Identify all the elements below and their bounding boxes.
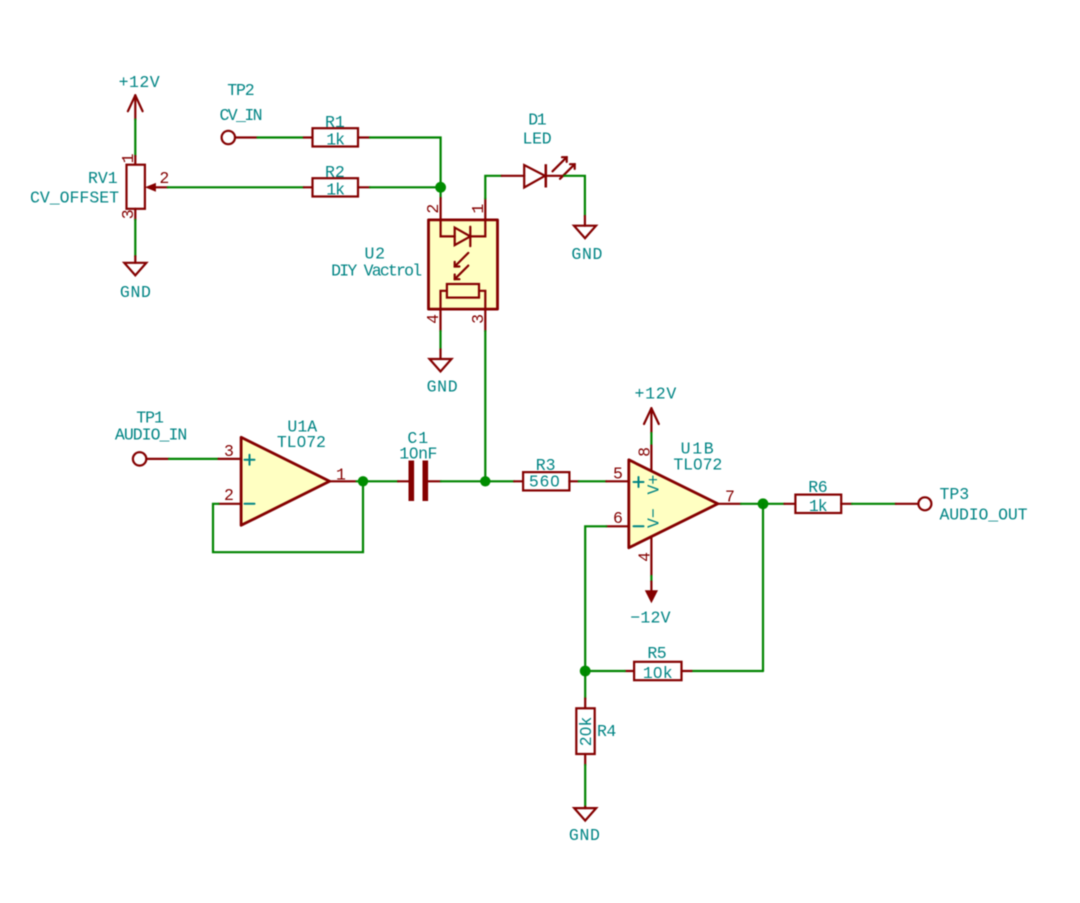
svg-text:AUDIO_OUT: AUDIO_OUT (940, 506, 1028, 525)
svg-text:CV_IN: CV_IN (220, 106, 263, 125)
wire R4 to GND (584, 765, 586, 807)
ground (U2) (427, 349, 458, 396)
svg-text:−12V: −12V (630, 609, 670, 628)
diode D1 LED (502, 111, 575, 188)
wire U1A feedback loop (213, 481, 363, 552)
wire R6 to TP3 (852, 503, 896, 505)
svg-text:+12V: +12V (119, 73, 160, 92)
svg-text:3: 3 (469, 314, 488, 324)
test point TP3 AUDIO_OUT (896, 485, 1028, 525)
svg-text:6: 6 (613, 509, 623, 528)
svg-text:1k: 1k (809, 497, 828, 516)
junction node at U1B output (758, 498, 769, 509)
svg-text:7: 7 (725, 488, 735, 507)
svg-text:GND: GND (120, 283, 151, 302)
svg-text:3: 3 (119, 209, 138, 219)
wire R5 right (692, 670, 764, 672)
wire R5 left to junction (585, 670, 625, 672)
svg-text:3: 3 (224, 442, 234, 461)
wire D1 to GND (564, 176, 585, 216)
svg-text:1: 1 (336, 466, 346, 485)
svg-text:V+: V+ (645, 475, 664, 495)
svg-text:V−: V− (645, 508, 664, 528)
resistor R1 1k (304, 113, 370, 150)
resistor R3 560 (514, 456, 579, 492)
ground (D1) (571, 216, 602, 264)
ground (R4) (569, 807, 600, 845)
svg-text:2: 2 (224, 486, 234, 505)
resistor R2 1k (304, 163, 370, 200)
svg-text:+12V: +12V (635, 385, 677, 404)
power -12V (630, 582, 670, 628)
wire R1 to node (370, 138, 441, 199)
svg-text:TP2: TP2 (227, 81, 255, 100)
junction node at U1A output (358, 476, 368, 486)
svg-text:1: 1 (119, 153, 138, 163)
wire TP1 to U1A pin3 (169, 458, 219, 460)
svg-text:GND: GND (427, 378, 458, 397)
power +12V (U1B) (635, 385, 677, 433)
svg-text:TP3: TP3 (940, 485, 970, 504)
test point TP1 AUDIO_IN (115, 409, 187, 466)
svg-text:R4: R4 (597, 722, 616, 741)
potentiometer RV1 (30, 153, 169, 219)
svg-text:4: 4 (635, 552, 654, 562)
wire U1B output down to R5 (762, 504, 764, 671)
svg-text:2: 2 (424, 204, 443, 214)
svg-text:R5: R5 (647, 644, 666, 663)
svg-text:D1: D1 (528, 111, 546, 130)
svg-text:R2: R2 (325, 163, 345, 182)
op-amp U1B TL072 (606, 440, 741, 577)
svg-text:10nF: 10nF (399, 445, 437, 464)
ground (RV1) (120, 256, 151, 302)
power +12V (left) (119, 73, 160, 120)
svg-text:5: 5 (613, 465, 623, 484)
svg-text:AUDIO_IN: AUDIO_IN (115, 426, 187, 445)
wire R2 to node (370, 186, 441, 188)
svg-text:R1: R1 (325, 113, 345, 132)
wire U1B pin4 to -12V (650, 576, 652, 582)
svg-text:R6: R6 (808, 478, 827, 497)
wire R3 to U1B pin5 (579, 480, 607, 482)
wire RV1 pin3 to GND (134, 220, 136, 256)
junction node at R1/R2/U2 (435, 182, 446, 193)
wire U2 pin3 down to C1/R3 node (484, 331, 486, 481)
wire junction up to U1B pin6 (585, 526, 606, 671)
wire junction down to R4 (584, 671, 586, 699)
svg-text:GND: GND (569, 826, 600, 845)
resistor R6 1k (784, 478, 852, 516)
svg-text:8: 8 (635, 447, 654, 457)
svg-text:DIY Vactrol: DIY Vactrol (331, 262, 422, 281)
svg-text:CV_OFFSET: CV_OFFSET (30, 189, 119, 208)
svg-text:4: 4 (424, 314, 443, 324)
svg-text:1: 1 (469, 204, 488, 214)
wire RV1 wiper to R2 (168, 186, 304, 188)
test point TP2 CV_IN (220, 81, 263, 144)
resistor R5 10k (625, 644, 692, 683)
wire C1 to R3 (441, 480, 514, 482)
op-amp U1A TL072 (219, 418, 357, 526)
capacitor C1 10nF (398, 429, 441, 501)
svg-text:2: 2 (159, 169, 169, 188)
wire U1B output to R6 (741, 503, 784, 505)
resistor R4 20k (576, 699, 616, 766)
wire U2 pin4 to GND (439, 331, 441, 349)
junction node at U2 pin3 / C1 / R3 (480, 476, 490, 486)
wire TP2 to R1 (258, 136, 304, 138)
wire U2 pin1 to D1 (485, 176, 501, 199)
svg-text:RV1: RV1 (88, 169, 118, 188)
optocoupler U2 DIY Vactrol (331, 198, 497, 331)
wire +12V to RV1 pin1 (134, 120, 136, 157)
svg-text:1k: 1k (326, 131, 345, 150)
svg-text:GND: GND (571, 245, 602, 264)
junction node at R4/R5 (580, 666, 591, 677)
wire +12V to U1B pin8 (650, 433, 652, 446)
svg-text:LED: LED (523, 130, 552, 149)
svg-text:1k: 1k (326, 181, 345, 200)
wire U1A output to C1 (357, 480, 399, 482)
